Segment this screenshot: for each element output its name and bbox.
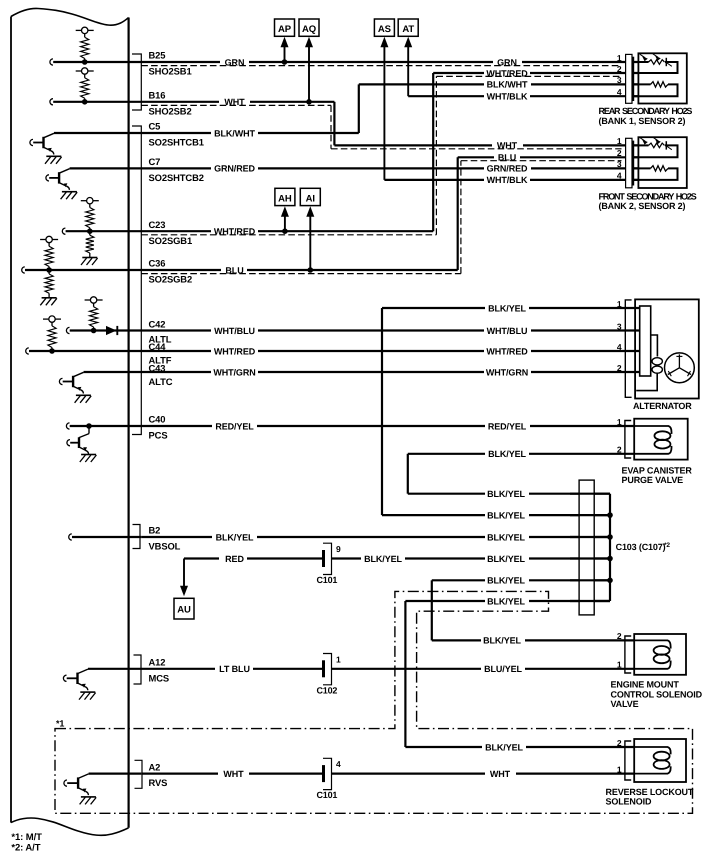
- svg-text:SHO2SB2: SHO2SB2: [149, 105, 192, 116]
- svg-text:SO2SHTCB1: SO2SHTCB1: [149, 137, 204, 148]
- svg-text:BLK/YEL: BLK/YEL: [487, 576, 525, 586]
- label BLK/WHT (right): [484, 79, 531, 90]
- node junction on C23 wire: [87, 228, 93, 234]
- wire WHT/BLU (C42 to alternator pin 3): [66, 327, 640, 333]
- alternator (component): [617, 299, 699, 399]
- connector bracket C5..C40 group: [132, 126, 141, 435]
- diode (C42 line, in ECM): [106, 326, 117, 335]
- svg-text:4: 4: [617, 171, 622, 181]
- label BLK/YEL (alternator): [485, 303, 529, 314]
- svg-text:AS: AS: [378, 24, 391, 35]
- label WHT/BLK (rear, right): [484, 91, 530, 102]
- label WHT/BLK (front, right): [484, 174, 530, 185]
- shield dashed line along BLU wire: [141, 161, 621, 274]
- label WHT/GRN (left): [211, 367, 258, 378]
- svg-text:RED/YEL: RED/YEL: [215, 421, 254, 431]
- wire BLU (C36): [22, 267, 458, 273]
- transistor (C5 driver, in ECM): [30, 133, 62, 164]
- label RED/YEL (right): [485, 421, 530, 432]
- label GRN (right): [493, 57, 522, 68]
- pin A2 RVS label: [149, 761, 168, 788]
- resistor pull-down with ground (C36 line): [40, 270, 57, 305]
- svg-text:SO2SGB1: SO2SGB1: [149, 235, 193, 246]
- wire BLK/YEL (EVAP valve pin 2 to C103 splice): [408, 454, 634, 494]
- connector bracket B25/B16 group: [132, 54, 141, 110]
- label WHT/RED (rear, right): [484, 68, 530, 79]
- svg-text:A12: A12: [149, 657, 166, 668]
- svg-text:(BANK 1, SENSOR 2): (BANK 1, SENSOR 2): [599, 116, 686, 126]
- inline connector C102 pin 1: [317, 654, 342, 696]
- svg-text:C101: C101: [317, 790, 338, 800]
- svg-text:B2: B2: [149, 525, 161, 536]
- svg-text:*2: A/T: *2: A/T: [11, 843, 40, 854]
- svg-text:BLK/YEL: BLK/YEL: [488, 303, 526, 313]
- svg-text:2: 2: [617, 363, 622, 373]
- svg-text:BLU/YEL: BLU/YEL: [484, 664, 522, 674]
- svg-text:FRONT SECONDARY HO2S: FRONT SECONDARY HO2S: [599, 191, 697, 201]
- svg-text:C44: C44: [149, 341, 167, 352]
- svg-text:SOLENOID: SOLENOID: [606, 797, 652, 807]
- resistor pull-up (C36 line, in ECM): [40, 236, 58, 270]
- wire/arrow to AU box: [180, 559, 188, 597]
- pin B25 SHO2SB1 label: [149, 50, 192, 77]
- label REVERSE LOCKOUT SOLENOID: [606, 787, 694, 807]
- svg-text:PCS: PCS: [149, 430, 168, 441]
- svg-text:3: 3: [617, 321, 622, 331]
- svg-text:(BANK 2, SENSOR 2): (BANK 2, SENSOR 2): [599, 201, 686, 211]
- label BLU (left): [221, 265, 247, 276]
- connector box AU: [174, 598, 194, 619]
- svg-text:ENGINE MOUNT: ENGINE MOUNT: [611, 680, 680, 690]
- wire BLK/YEL (C103 row 2 splice): [382, 514, 610, 516]
- pin C44 ALTF label: [149, 341, 172, 365]
- connector box AI: [300, 188, 320, 205]
- wire BLK/YEL (C103 row 1 splice): [408, 493, 610, 495]
- sensor FRONT SECONDARY HO2S (BANK 2, SENSOR 2): [617, 136, 687, 188]
- note *1: M/T: [11, 832, 42, 843]
- svg-text:B25: B25: [149, 50, 166, 61]
- svg-text:VALVE: VALVE: [611, 699, 639, 709]
- resistor pull-down with ground (C23 line): [81, 231, 98, 265]
- svg-text:WHT: WHT: [490, 769, 511, 779]
- wire WHT/BLK (rear HO2S pin 4 from AT): [408, 95, 638, 97]
- label C103 (C107)*2: [616, 542, 671, 552]
- wire BLK/YEL (C101 pin 9 to C103): [332, 557, 611, 559]
- svg-text:2: 2: [617, 631, 622, 641]
- svg-text:ALTERNATOR: ALTERNATOR: [633, 401, 692, 411]
- svg-text:BLK/YEL: BLK/YEL: [487, 554, 525, 564]
- wire WHT/GRN (C43 to alternator pin 2): [84, 371, 641, 373]
- svg-text:SO2SHTCB2: SO2SHTCB2: [149, 172, 204, 183]
- svg-text:AU: AU: [177, 605, 191, 616]
- label WHT (left): [219, 96, 250, 107]
- svg-text:BLK/YEL: BLK/YEL: [487, 596, 525, 606]
- inline connector C101 pin 9: [317, 543, 342, 585]
- svg-text:2: 2: [617, 445, 622, 455]
- label WHT/BLU (left): [211, 325, 258, 336]
- connector bracket A2: [135, 760, 143, 788]
- svg-text:SHO2SB1: SHO2SB1: [149, 66, 192, 77]
- svg-text:1: 1: [617, 417, 622, 427]
- pin C23 SO2SGB1 label: [149, 219, 193, 246]
- inline connector C101 pin 4: [317, 758, 342, 800]
- label BLK/YEL (after C101): [361, 553, 405, 564]
- wire B16 internal: [50, 99, 141, 105]
- label *1 (region tag): [56, 718, 64, 728]
- ECM/PCM module outline (torn-edge block): [11, 8, 129, 835]
- svg-text:BLK/YEL: BLK/YEL: [487, 489, 525, 499]
- svg-text:C40: C40: [149, 414, 166, 425]
- svg-text:GRN/RED: GRN/RED: [214, 164, 255, 174]
- svg-text:BLK/YEL: BLK/YEL: [487, 510, 525, 520]
- svg-text:WHT/BLK: WHT/BLK: [487, 92, 528, 102]
- label BLU (right): [494, 152, 520, 163]
- EVAP canister purge valve (component): [617, 417, 688, 460]
- label ENGINE MOUNT CONTROL SOLENOID VALVE: [611, 680, 703, 709]
- svg-text:WHT/BLU: WHT/BLU: [214, 326, 255, 336]
- pin C36 SO2SGB2 label: [149, 258, 193, 285]
- label WHT (right): [492, 140, 523, 151]
- shield dashed line along WHT/RED wire: [141, 76, 621, 234]
- pin C42 ALTL label: [149, 319, 172, 345]
- svg-text:C102: C102: [317, 685, 338, 695]
- resistor pull-up (B25 line, in ECM): [76, 27, 94, 62]
- svg-text:WHT/BLU: WHT/BLU: [487, 326, 528, 336]
- label WHT/RED (right): [484, 346, 531, 357]
- svg-text:1: 1: [617, 764, 622, 774]
- svg-text:1: 1: [617, 136, 622, 146]
- label BLK/YEL (C103 row 5): [485, 575, 529, 586]
- transistor (C40 driver, in ECM): [67, 426, 97, 462]
- svg-text:1: 1: [336, 654, 341, 664]
- svg-text:AH: AH: [278, 193, 292, 204]
- resistor pull-up (C42 line, in ECM): [85, 297, 103, 331]
- pin B2 VBSOL label: [149, 525, 181, 552]
- sensor REAR SECONDARY HO2S (BANK 1, SENSOR 2): [617, 53, 687, 104]
- svg-text:AQ: AQ: [302, 24, 316, 35]
- svg-text:BLK/YEL: BLK/YEL: [364, 554, 402, 564]
- wire/arrow AH to WHT/RED: [281, 206, 289, 234]
- svg-text:WHT: WHT: [223, 769, 244, 779]
- svg-text:BLK/YEL: BLK/YEL: [487, 532, 525, 542]
- svg-text:RED: RED: [225, 554, 244, 564]
- svg-text:BLK/YEL: BLK/YEL: [485, 742, 523, 752]
- label WHT/RED (left): [211, 346, 258, 357]
- wire BLU/YEL (C102 to engine mount pin 1): [332, 668, 635, 670]
- svg-text:2: 2: [617, 738, 622, 748]
- label WHT/RED (left): [211, 226, 258, 237]
- svg-text:C43: C43: [149, 362, 166, 373]
- label BLK/YEL (C103 row 2): [485, 510, 529, 521]
- svg-text:PURGE VALVE: PURGE VALVE: [622, 475, 684, 485]
- svg-text:*1: M/T: *1: M/T: [11, 832, 42, 843]
- svg-text:SO2SGB2: SO2SGB2: [149, 274, 193, 285]
- shield dashed line along WHT wire: [141, 105, 621, 148]
- label BLK/YEL (B2, right): [485, 532, 529, 543]
- svg-text:C23: C23: [149, 219, 166, 230]
- resistor pull-up (C23 line, in ECM): [81, 198, 99, 232]
- label BLK/WHT (left): [211, 128, 258, 139]
- svg-text:9: 9: [336, 544, 341, 554]
- wire WHT (A2 RVS to C101 pin 4): [89, 772, 324, 774]
- wire/arrow AI to BLU: [306, 206, 314, 273]
- label BLK/YEL (engine mount pin 2): [481, 635, 525, 646]
- transistor (C7 driver, in ECM): [46, 169, 77, 200]
- label BLK/YEL (C103 row 4): [485, 553, 529, 564]
- node junction on C40 wire: [86, 423, 92, 429]
- svg-text:EVAP CANISTER: EVAP CANISTER: [622, 465, 693, 475]
- svg-text:BLK/YEL: BLK/YEL: [483, 636, 521, 646]
- svg-text:ALTC: ALTC: [149, 376, 173, 387]
- svg-text:AP: AP: [278, 24, 292, 35]
- svg-text:C42: C42: [149, 319, 166, 330]
- label RED: [219, 553, 247, 564]
- label RED/YEL (left): [212, 421, 257, 432]
- svg-text:REAR SECONDARY HO2S: REAR SECONDARY HO2S: [599, 106, 693, 116]
- svg-text:WHT/GRN: WHT/GRN: [486, 367, 528, 377]
- svg-text:LT BLU: LT BLU: [219, 664, 250, 674]
- svg-text:*2: *2: [664, 542, 670, 549]
- svg-text:BLK/WHT: BLK/WHT: [487, 80, 528, 90]
- label LT BLU: [215, 663, 253, 674]
- svg-text:BLK/YEL: BLK/YEL: [216, 532, 254, 542]
- label BLK/YEL (reverse lockout pin 2): [482, 742, 526, 753]
- wire BLU (front HO2S pin 2 branch): [458, 157, 639, 270]
- svg-text:GRN/RED: GRN/RED: [487, 164, 528, 174]
- label WHT/GRN (right): [484, 367, 531, 378]
- pin B16 SHO2SB2 label: [149, 90, 192, 117]
- shield dashed line along GRN wire: [141, 65, 621, 67]
- svg-text:VBSOL: VBSOL: [149, 541, 181, 552]
- svg-text:RED/YEL: RED/YEL: [488, 421, 527, 431]
- svg-text:CONTROL SOLENOID: CONTROL SOLENOID: [611, 689, 703, 699]
- wire WHT/RED (C23): [62, 228, 433, 234]
- transistor (A12 driver, in ECM): [63, 669, 95, 700]
- dash-dot boundary *1 (M/T only region): [55, 591, 693, 813]
- resistor pull-up (B16 line, in ECM): [76, 68, 94, 102]
- svg-text:WHT/RED: WHT/RED: [214, 346, 256, 356]
- label REAR SECONDARY HO2S: [599, 106, 693, 126]
- wire WHT (B16 to front HO2S pin 1): [141, 102, 638, 146]
- label EVAP CANISTER PURGE VALVE: [622, 465, 693, 485]
- note *2: A/T: [11, 843, 40, 854]
- svg-text:4: 4: [617, 342, 622, 352]
- svg-text:AI: AI: [306, 193, 315, 204]
- pin C5 SO2SHTCB1 label: [149, 121, 204, 148]
- pin C7 SO2SHTCB2 label: [149, 156, 204, 183]
- node junction on B16 wire: [82, 99, 88, 105]
- connector box AH: [275, 188, 295, 205]
- svg-text:1: 1: [617, 660, 622, 670]
- wire/arrow AP to GRN: [281, 37, 289, 65]
- node junction on C42 wire: [91, 328, 97, 334]
- reverse lockout solenoid (component): [617, 738, 686, 782]
- wire BLK/YEL (alternator pin 1 to C103 splice): [382, 308, 641, 515]
- svg-text:C7: C7: [149, 156, 161, 167]
- svg-text:C36: C36: [149, 258, 166, 269]
- wire WHT/BLK (front HO2S pin 4 from AS): [384, 179, 638, 181]
- svg-text:BLK/YEL: BLK/YEL: [488, 449, 526, 459]
- connector bracket A12: [134, 655, 142, 684]
- wire WHT/RED (rear HO2S pin 2 branch): [433, 73, 638, 231]
- wire RED (B2 branch to C101 pin 9): [184, 557, 324, 559]
- svg-text:1: 1: [617, 53, 622, 63]
- label ALTERNATOR: [633, 401, 692, 411]
- svg-text:C5: C5: [149, 121, 161, 132]
- wire BLK/WHT (C5 to rear HO2S pin 3): [54, 84, 638, 133]
- engine mount control solenoid valve (component): [617, 631, 686, 675]
- svg-text:A2: A2: [149, 761, 161, 772]
- connector bracket B2: [133, 525, 141, 549]
- connector box AS: [374, 19, 394, 36]
- svg-text:C103 (C107): C103 (C107): [616, 542, 666, 552]
- wire segments through C103 + splice bus: [570, 494, 613, 601]
- wire B25 internal: [50, 59, 141, 65]
- label GRN/RED (right): [484, 163, 531, 174]
- connector box AP: [275, 19, 295, 36]
- pin C40 PCS label: [149, 414, 168, 441]
- connector box AQ: [299, 19, 319, 36]
- label WHT (right): [485, 768, 516, 779]
- svg-text:REVERSE LOCKOUT: REVERSE LOCKOUT: [606, 787, 694, 797]
- svg-text:B16: B16: [149, 90, 166, 101]
- wire BLK/YEL (C103 row 6 to reverse lockout solenoid): [405, 601, 634, 747]
- wire GRN/RED (C7 to front HO2S pin 3): [70, 167, 639, 169]
- svg-text:4: 4: [617, 87, 622, 97]
- svg-text:BLK/WHT: BLK/WHT: [214, 128, 255, 138]
- label WHT/BLU (right): [484, 325, 531, 336]
- svg-text:2: 2: [617, 148, 622, 158]
- node junction on C44 wire: [49, 348, 55, 354]
- label GRN/RED (left): [211, 163, 258, 174]
- label FRONT SECONDARY HO2S: [599, 191, 697, 211]
- label GRN (left): [220, 57, 249, 68]
- node junction on B25 wire: [82, 59, 88, 65]
- wire BLK/YEL (B2 VBSOL to C103): [69, 534, 610, 540]
- connector box AT: [398, 19, 418, 36]
- wire BLK/YEL (C103 row 5 to engine mount solenoid): [432, 580, 634, 640]
- svg-text:C101: C101: [317, 575, 338, 585]
- svg-text:4: 4: [336, 759, 341, 769]
- wire WHT/RED (C44 to alternator pin 4): [26, 348, 641, 354]
- pin C43 ALTC label: [149, 362, 173, 387]
- wire/arrow AS to front WHT/BLK: [380, 37, 388, 180]
- wire/arrow AQ to WHT: [305, 37, 313, 105]
- svg-text:MCS: MCS: [149, 672, 170, 683]
- label WHT (A2): [218, 768, 249, 779]
- svg-text:AT: AT: [402, 24, 414, 35]
- transistor (C43 driver, in ECM): [59, 372, 91, 403]
- svg-text:WHT/BLK: WHT/BLK: [487, 175, 528, 185]
- wire RED/YEL (C40 to EVAP valve pin 1): [66, 423, 634, 429]
- wire GRN (B25 to rear HO2S pin 1): [141, 61, 638, 63]
- svg-text:WHT/RED: WHT/RED: [486, 346, 528, 356]
- label BLK/YEL (C103 row 6): [485, 596, 529, 607]
- wire LT BLU (A12 MCS to C102): [88, 668, 324, 670]
- label BLK/YEL (C103 row 1): [485, 488, 529, 499]
- wire WHT (C101 to reverse lockout pin 1): [332, 772, 635, 774]
- wire/arrow AT to rear WHT/BLK: [404, 37, 412, 96]
- svg-text:*1: *1: [56, 718, 64, 728]
- node junction on C36 wire: [46, 267, 52, 273]
- label BLK/YEL (B2, left): [212, 532, 257, 543]
- connector C103 (C107): [579, 480, 594, 615]
- transistor (A2 driver, in ECM): [64, 774, 96, 805]
- svg-text:RVS: RVS: [149, 777, 168, 788]
- label BLK/YEL (EVAP pin 2): [485, 448, 529, 459]
- svg-text:1: 1: [617, 299, 622, 309]
- label BLU/YEL: [481, 663, 525, 674]
- pin A12 MCS label: [149, 657, 170, 684]
- resistor pull-up (C44 line, in ECM): [43, 316, 61, 351]
- svg-text:WHT/GRN: WHT/GRN: [213, 367, 255, 377]
